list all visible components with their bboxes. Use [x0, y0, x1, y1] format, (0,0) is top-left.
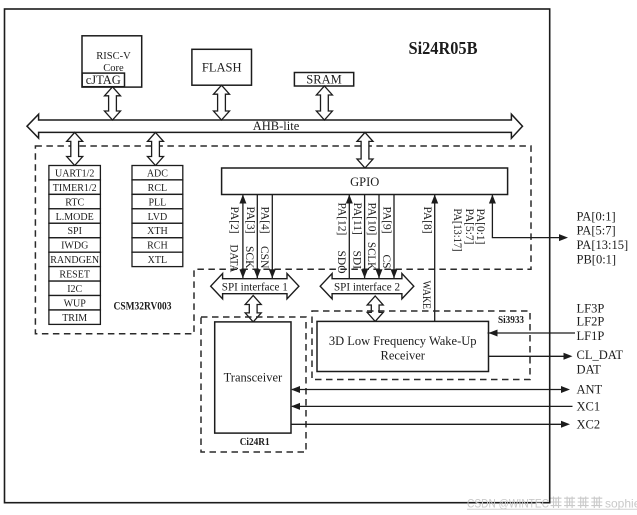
svg-text:SCLK: SCLK	[365, 242, 377, 271]
peripheral block SPI	[49, 223, 101, 237]
svg-text:XC1: XC1	[577, 400, 601, 414]
watermark CSDN	[467, 497, 637, 511]
wire XC2	[291, 423, 568, 425]
svg-text:LF2P: LF2P	[577, 315, 605, 329]
clock block PLL	[132, 194, 183, 208]
peripheral block TRIM	[49, 310, 101, 324]
wire LF input	[488, 332, 576, 334]
SRAM box	[294, 73, 353, 87]
svg-text:PA[2]: PA[2]	[228, 207, 240, 234]
svg-text:LF3P: LF3P	[577, 301, 605, 315]
svg-text:LF1P: LF1P	[577, 329, 605, 343]
svg-text:RTC: RTC	[65, 197, 84, 208]
clock block RCH	[132, 238, 183, 252]
svg-text:cJTAG: cJTAG	[86, 73, 121, 87]
svg-text:PA[8]: PA[8]	[421, 207, 433, 234]
svg-text:SPI interface 2: SPI interface 2	[334, 281, 400, 293]
clock block XTH	[132, 223, 183, 237]
svg-text:L.MODE: L.MODE	[56, 212, 94, 223]
double arrow SPI1-Transceiver	[245, 296, 261, 322]
wire PA[9]/CS	[393, 195, 395, 279]
svg-text:RCH: RCH	[147, 241, 168, 252]
svg-text:WUP: WUP	[64, 298, 87, 309]
wire PA[8]/WAKE	[434, 195, 436, 322]
wire PA[3]/SCK	[256, 195, 258, 279]
clock block RCL	[132, 180, 183, 194]
svg-text:3D Low Frequency Wake-Up: 3D Low Frequency Wake-Up	[329, 334, 477, 348]
double arrow SRAM-AHB	[316, 86, 332, 120]
Si3933 dashed boundary	[312, 311, 530, 380]
3D Low Frequency Wake-Up Receiver box	[317, 321, 489, 371]
svg-text:CSN: CSN	[258, 246, 270, 269]
clock block LVD	[132, 209, 183, 223]
peripheral block WUP	[49, 296, 101, 310]
svg-text:FLASH: FLASH	[202, 61, 242, 75]
svg-text:Ci24R1: Ci24R1	[240, 436, 270, 448]
peripheral block L.MODE	[49, 209, 101, 223]
svg-text:PA[11]: PA[11]	[351, 203, 363, 235]
double arrow FLASH-AHB	[214, 85, 230, 120]
svg-text:AHB-lite: AHB-lite	[253, 119, 300, 133]
FLASH box	[192, 49, 252, 85]
AHB-lite bus	[27, 114, 523, 138]
svg-text:SPI: SPI	[67, 226, 81, 237]
svg-text:RESET: RESET	[59, 270, 90, 281]
svg-text:CL_DAT: CL_DAT	[577, 348, 624, 362]
svg-text:PB[0:1]: PB[0:1]	[577, 252, 617, 266]
svg-text:LVD: LVD	[148, 212, 168, 223]
wire XC1	[292, 405, 573, 407]
clock block ADC	[132, 166, 183, 180]
wire PA[2]/DATA	[242, 195, 244, 279]
svg-text:PA[0:1]: PA[0:1]	[577, 209, 616, 223]
svg-text:TRIM: TRIM	[62, 313, 87, 324]
svg-text:PA[5:7]: PA[5:7]	[463, 209, 475, 245]
svg-text:UART1/2: UART1/2	[55, 168, 94, 179]
peripheral block RANDGEN	[49, 252, 101, 266]
svg-text:RCL: RCL	[148, 183, 167, 194]
Ci24R1 dashed boundary	[201, 317, 306, 452]
svg-text:XTL: XTL	[148, 255, 167, 266]
svg-text:PA[12]: PA[12]	[336, 203, 348, 236]
svg-text:Si3933: Si3933	[498, 315, 524, 326]
svg-text:PA[13:17]: PA[13:17]	[451, 209, 463, 252]
double arrow AHB-clock column	[148, 132, 164, 165]
svg-text:WAKE: WAKE	[420, 281, 432, 310]
wire PA[11]/SDI	[364, 195, 366, 279]
svg-text:RISC-V: RISC-V	[96, 51, 131, 62]
svg-text:Core: Core	[103, 63, 124, 74]
SPI interface 2 ribbon	[320, 274, 414, 299]
svg-text:Transceiver: Transceiver	[224, 371, 283, 385]
svg-text:SDI: SDI	[351, 251, 363, 270]
peripheral block UART1/2	[49, 166, 101, 180]
double arrow SPI2-Receiver	[367, 296, 383, 321]
svg-text:CSDN @WINTEC: CSDN @WINTEC	[467, 497, 549, 511]
svg-text:PLL: PLL	[149, 197, 167, 208]
svg-text:PA[3]: PA[3]	[244, 207, 256, 234]
peripheral block RTC	[49, 194, 101, 208]
peripheral block IWDG	[49, 238, 101, 252]
wire CL_DAT	[489, 355, 571, 357]
Transceiver box	[215, 322, 291, 433]
svg-text:PA[9]: PA[9]	[381, 207, 393, 234]
svg-text:Receiver: Receiver	[380, 348, 425, 362]
cJTAG box	[82, 73, 124, 87]
svg-text:RANDGEN: RANDGEN	[50, 255, 99, 266]
peripheral block TIMER1/2	[49, 180, 101, 194]
peripheral block RESET	[49, 267, 101, 281]
svg-text:PA[10]: PA[10]	[366, 203, 378, 236]
svg-text:CS: CS	[380, 255, 392, 269]
svg-text:ANT: ANT	[577, 382, 603, 396]
svg-text:SCK: SCK	[243, 246, 255, 269]
svg-text:CSM32RV003: CSM32RV003	[114, 301, 172, 313]
svg-text:SPI interface 1: SPI interface 1	[222, 281, 288, 293]
svg-text:sophie: sophie	[605, 497, 637, 511]
svg-text:TIMER1/2: TIMER1/2	[53, 183, 97, 194]
double arrow AHB-GPIO	[357, 132, 373, 168]
double arrow AHB-peripheral column	[67, 132, 83, 165]
svg-text:I2C: I2C	[67, 284, 82, 295]
svg-text:IWDG: IWDG	[61, 241, 88, 252]
wire GPIO port out L	[492, 195, 566, 238]
svg-text:SRAM: SRAM	[306, 73, 341, 87]
svg-text:XC2: XC2	[577, 418, 601, 432]
CSM32RV003 dashed boundary	[35, 146, 531, 334]
svg-text:ADC: ADC	[147, 168, 168, 179]
svg-text:Si24R05B: Si24R05B	[409, 38, 478, 58]
svg-text:DATA: DATA	[228, 245, 240, 274]
svg-text:PA[4]: PA[4]	[259, 207, 271, 234]
clock block XTL	[132, 252, 183, 266]
SPI interface 1 ribbon	[211, 274, 299, 299]
svg-text:GPIO: GPIO	[350, 175, 379, 189]
wire ANT	[292, 389, 568, 391]
svg-text:DAT: DAT	[577, 362, 602, 376]
svg-text:SDO: SDO	[335, 251, 347, 274]
GPIO box	[222, 168, 508, 195]
RISC-V Core box	[82, 36, 142, 87]
peripheral block I2C	[49, 281, 101, 295]
wire PA[10]/SCLK	[378, 195, 380, 279]
svg-text:PA[13:15]: PA[13:15]	[577, 238, 629, 252]
wire PA[12]/SDO	[348, 195, 350, 279]
svg-text:PA[5:7]: PA[5:7]	[577, 224, 616, 238]
wire PA[4]/CSN	[271, 195, 273, 279]
svg-text:XTH: XTH	[147, 226, 168, 237]
double arrow cJTAG-AHB	[105, 87, 121, 120]
